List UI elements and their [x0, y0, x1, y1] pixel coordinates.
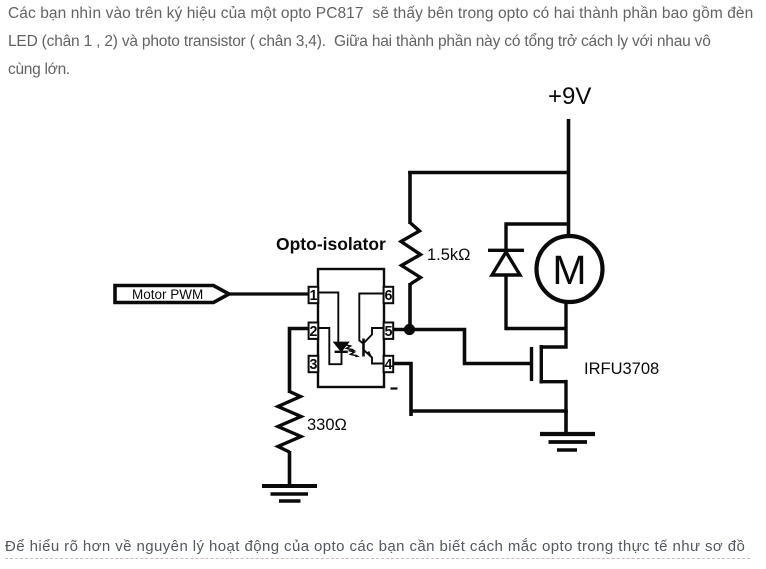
ground symbol right: [540, 434, 595, 450]
wire: diode bottom horizontal to drain: [506, 327, 566, 330]
junction node dot: [404, 324, 415, 335]
pin 5 box: [384, 323, 394, 339]
wire: R1 bottom lead to junction: [408, 283, 412, 330]
pin 6 box: [384, 287, 394, 303]
svg-text:2: 2: [310, 324, 318, 340]
opto pins: [309, 287, 394, 372]
diode D1 flyback: [488, 222, 568, 330]
light arrow 2: [349, 351, 357, 356]
wire: U1 internal cathode trace pin2: [318, 328, 342, 364]
channel bar: [540, 345, 543, 384]
resistor R-330 zigzag: [278, 392, 301, 453]
svg-text:M: M: [552, 247, 586, 293]
svg-text:4: 4: [385, 357, 393, 373]
wire: diode top horizontal to motor branch: [506, 222, 568, 225]
input flag Motor PWM: [115, 286, 229, 303]
pin 2 box: [309, 323, 319, 339]
resistor R-1.5k zigzag: [401, 223, 421, 284]
pin 3 box: [309, 356, 319, 372]
diode cathode bar: [488, 249, 524, 252]
transistor Q2 base bar inside U1: [362, 339, 365, 357]
wire: U1 internal anode trace pin1: [318, 293, 338, 344]
opto-isolator U1 body: [318, 269, 384, 387]
wire: opto pin5 to gate net: [392, 330, 530, 364]
svg-text:1: 1: [310, 288, 318, 304]
emitter arrowhead Q2: [367, 351, 373, 358]
svg-text:6: 6: [385, 288, 393, 304]
wire: U1 internal emitter trace pin4: [364, 351, 383, 364]
wire: U1 internal collector trace pin5: [364, 328, 383, 343]
wire: diode anode vertical top: [504, 222, 507, 250]
svg-text:Motor PWM: Motor PWM: [132, 287, 203, 302]
svg-text:5: 5: [385, 324, 393, 340]
wire: U1 internal base trace pin6: [359, 294, 383, 344]
source lead: [540, 380, 567, 413]
svg-text:+9V: +9V: [548, 83, 591, 110]
MOSFET Q1 IRFU3708: [532, 302, 567, 413]
wire: Motor PWM input to opto pin1: [228, 292, 310, 295]
wire: opto pin2 down to R2: [290, 329, 311, 394]
drain lead: [540, 302, 567, 349]
svg-text:330Ω: 330Ω: [307, 416, 347, 434]
svg-text:IRFU3708: IRFU3708: [584, 360, 659, 378]
wire: +9V rail vertical down to motor: [567, 119, 571, 237]
svg-text:1.5kΩ: 1.5kΩ: [427, 246, 471, 264]
wire: R2 bottom lead to ground: [288, 451, 292, 484]
wire: top branch from +9V rail to R1 top: [408, 171, 570, 175]
wire: opto pin4 to source/ground rail: [392, 364, 568, 417]
wire: R1 top lead: [408, 171, 412, 224]
ground symbol left: [262, 486, 317, 501]
wire: diode vertical bottom: [504, 275, 507, 330]
svg-text:Opto-isolator: Opto-isolator: [276, 234, 386, 254]
light arrow 1: [345, 345, 353, 350]
svg-text:3: 3: [310, 357, 318, 373]
pin 1 box: [309, 287, 319, 303]
pin 4 box: [384, 356, 394, 372]
motor M1 circle: [537, 236, 603, 302]
diode triangle: [492, 252, 520, 275]
LED D2 inside U1: [335, 343, 348, 351]
stray scan mark: [391, 387, 398, 389]
wire: ground stem right: [564, 411, 568, 434]
gate bar: [530, 347, 533, 381]
